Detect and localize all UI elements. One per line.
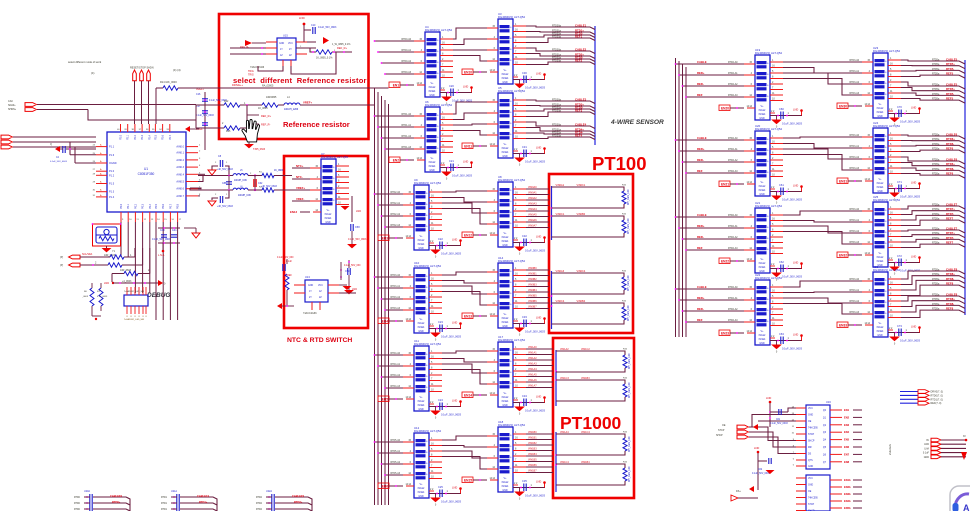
svg-text:REF1: REF1 [575,35,583,39]
svg-text:RTD5a: RTD5a [932,238,940,240]
capacitor C63 and ground [770,332,803,354]
svg-text:RTD6-: RTD6- [946,167,954,171]
svg-text:AIN0.3: AIN0.3 [176,166,184,169]
svg-text:VIN1C3: VIN1C3 [560,377,569,380]
capacitor C60 and ground [770,107,803,129]
svg-text:IN3&4: IN3&4 [502,151,509,154]
svg-text:RED-: RED- [697,307,704,311]
analog switch U23 [862,46,901,118]
svg-text:RTD2-A3: RTD2-A3 [728,170,738,173]
svg-text:C22: C22 [438,237,443,241]
svg-text:VCC: VCC [808,478,813,480]
svg-text:RTD8-: RTD8- [946,277,954,281]
svg-text:RTD3-A3: RTD3-A3 [390,307,400,310]
svg-text:RTD0-A1: RTD0-A1 [401,49,411,52]
svg-text:RTD5a: RTD5a [932,94,940,96]
svg-text:RTD5+: RTD5+ [946,62,955,66]
svg-text:EN6: EN6 [382,485,388,489]
svg-text:C72: C72 [897,254,902,258]
enable net EN3 [378,235,409,241]
svg-text:RTD5a: RTD5a [932,219,940,221]
svg-text:ALT-Q54: ALT-Q54 [514,338,525,342]
svg-text:CABLE2X: CABLE2X [292,494,304,498]
svg-text:C30: C30 [522,71,527,75]
svg-text:VIN1B6: VIN1B6 [528,464,537,467]
svg-text:RED+: RED+ [697,296,705,300]
svg-text:DG409DVQ: DG409DVQ [873,124,889,128]
svg-text:RTD8+: RTD8+ [946,272,955,276]
svg-text:CA0: CA0 [8,100,13,103]
svg-text:GND: GND [418,495,424,498]
svg-text:EN20: EN20 [721,107,729,111]
capacitor C72 and ground [888,254,921,276]
col3 input wires [675,285,744,323]
enable net EN1 [389,82,420,88]
svg-text:(P): (P) [60,256,63,259]
svg-text:LND: LND [793,261,798,265]
svg-text:RTD5a: RTD5a [932,60,940,62]
capacitors C40 C41 [152,227,200,257]
svg-text:C23: C23 [438,320,443,324]
VIN output wires 0A [526,186,549,228]
svg-text:U1: U1 [144,167,148,171]
svg-text:VIN1A7: VIN1A7 [528,385,537,388]
svg-text:4-WIRE SENSOR: 4-WIRE SENSOR [610,119,664,126]
svg-text:EN11: EN11 [464,145,472,149]
svg-text:ALT-Q54: ALT-Q54 [889,198,900,202]
svg-text:IN3&4: IN3&4 [759,113,766,116]
svg-text:RED-: RED- [697,158,704,162]
svg-text:ALT-Q54: ALT-Q54 [889,124,900,128]
svg-text:VCC: VCC [808,408,813,410]
svg-text:RTD6+: RTD6+ [946,162,955,166]
svg-text:VIN1A2: VIN1A2 [560,348,569,351]
svg-text:VIN1B4: VIN1B4 [581,461,590,464]
inductor L6 and resistor row2 [190,187,292,198]
svg-text:RTD5a: RTD5a [932,174,940,176]
svg-text:VIN0C1: VIN0C1 [556,213,565,216]
svg-text:C63: C63 [779,332,784,336]
svg-text:LND: LND [793,184,798,188]
svg-text:IN1&2: IN1&2 [325,213,332,216]
svg-text:LND: LND [452,399,457,403]
svg-text:AIN0.7: AIN0.7 [176,195,184,198]
input wires from bundle [374,439,403,476]
svg-text:_0603: _0603 [81,296,89,298]
svg-text:RA_00005: RA_00005 [262,85,274,88]
svg-text:RTD2-A3: RTD2-A3 [728,94,738,97]
svg-text:P2.0: P2.0 [120,134,123,140]
RC cluster 2 [161,490,217,511]
svg-text:RTD3-A0: RTD3-A0 [849,134,859,137]
svg-text:IN3&4: IN3&4 [502,485,509,488]
fanout group CABLE2 [526,48,595,65]
svg-text:RTD2-A2: RTD2-A2 [728,159,738,162]
capacitor C62 and ground [770,260,803,282]
enable net EN23 [719,330,750,336]
svg-text:VIN0A7: VIN0A7 [528,225,537,228]
capacitor C9 bottom [208,190,233,208]
svg-text:GND: GND [418,408,424,411]
svg-text:LND: LND [452,486,457,490]
svg-text:LND: LND [911,106,916,110]
svg-text:ALT-Q54: ALT-Q54 [514,89,525,93]
svg-text:VIN0A6: VIN0A6 [528,219,537,222]
svg-text:P2.1: P2.1 [127,134,130,140]
svg-text:IN3&4: IN3&4 [418,404,425,407]
capacitor C31 and ground [513,145,546,167]
svg-text:AIN0.1: AIN0.1 [176,152,184,155]
svg-text:VIN1C4: VIN1C4 [581,431,590,434]
svg-text:+4F_50V_0603: +4F_50V_0603 [217,169,233,171]
svg-text:RTD3-A3: RTD3-A3 [849,311,859,314]
svg-text:RTD4-A2: RTD4-A2 [390,374,400,377]
svg-text:1K_0805: 1K_0805 [258,107,268,110]
svg-text:LND: LND [536,235,541,239]
svg-text:DG409DVQ: DG409DVQ [414,429,430,433]
svg-text:CABLE: CABLE [697,285,707,289]
capacitor C33 and ground [513,315,546,337]
svg-text:0.1uF_50V_060: 0.1uF_50V_060 [277,257,294,259]
svg-text:R15: R15 [226,130,231,133]
svg-text:DG409DVQ: DG409DVQ [414,342,430,346]
svg-text:VIN1B5: VIN1B5 [528,459,537,462]
svg-text:GND: GND [808,415,813,417]
svg-text:RTD5-A3: RTD5-A3 [390,472,400,475]
staircase wires col3 to col4 [783,278,862,314]
svg-text:EN7: EN7 [844,452,850,456]
svg-text:RTD5a: RTD5a [932,74,940,76]
svg-text:RTD5a: RTD5a [932,144,940,146]
4-wire sensor fanout bus [594,26,596,145]
capacitor C4 [50,143,96,163]
svg-text:IN1&2: IN1&2 [418,487,425,490]
svg-text:0.1uF_50V_0603: 0.1uF_50V_0603 [770,423,788,425]
svg-text:NTC+: NTC+ [296,164,304,168]
svg-text:C33: C33 [522,315,527,319]
sensor loop R20 [556,348,631,372]
svg-text:RED+: RED+ [697,224,705,228]
svg-text:AIN0.0: AIN0.0 [176,146,184,149]
capacitor C20 and ground [440,84,473,106]
svg-text:RTD0-A3: RTD0-A3 [401,71,411,74]
svg-text:REF8: REF8 [946,282,954,286]
svg-text:R14 10K_0603: R14 10K_0603 [160,81,177,84]
capacitor C30 and ground [513,71,546,93]
capacitor C8 top [208,155,233,176]
svg-text:CABLE: CABLE [697,213,707,217]
svg-text:C70: C70 [897,105,902,109]
svg-text:P1.5: P1.5 [109,183,115,186]
microcontroller U1 C8051F350 [93,124,201,222]
svg-text:RTD3-A1: RTD3-A1 [849,219,859,222]
svg-text:RTD6+: RTD6+ [946,137,955,141]
svg-text:GND: GND [502,81,508,84]
svg-text:RED-: RED- [697,235,704,239]
resistor R11 [80,248,143,267]
svg-text:IN3&4: IN3&4 [502,77,509,80]
svg-text:LND: LND [536,316,541,320]
svg-text:REF: REF [697,318,703,322]
svg-text:EN5: EN5 [382,398,388,402]
staircase wires between columns [442,272,487,305]
svg-text:RTD5a: RTD5a [932,169,940,171]
svg-text:LND: LND [911,255,916,259]
svg-text:0.1uF_50V_0603: 0.1uF_50V_0603 [348,238,367,241]
svg-text:RED+: RED+ [697,147,705,151]
svg-text:RTD5a: RTD5a [932,214,940,216]
svg-text:VIN1C2: VIN1C2 [581,348,590,351]
col3 input wires [675,60,744,98]
svg-text:IN3&4: IN3&4 [502,321,509,324]
fanout group right 1 [901,82,965,103]
svg-text:LND: LND [793,333,798,337]
svg-text:(4) (4): (4) (4) [173,68,181,72]
svg-text:VIN0B7: VIN0B7 [528,306,537,309]
capacitor C25 and ground [429,485,462,507]
svg-text:RTD3-A3: RTD3-A3 [849,241,859,244]
svg-text:U21A: U21A [171,490,177,493]
svg-text:OE: OE [722,424,726,427]
svg-text:DG409DVQ: DG409DVQ [425,28,441,32]
svg-text:RTD1: RTD1 [161,503,168,505]
svg-text:RTD2-A3: RTD2-A3 [728,319,738,322]
svg-text:1_W_0805_0.1%: 1_W_0805_0.1% [332,43,351,46]
analog switch U21 [744,201,783,273]
svg-text:WT_RES_100: WT_RES_100 [627,189,630,205]
analog switch U22 [744,273,783,345]
svg-text:P0.4: P0.4 [149,203,152,209]
VIN output wires 1B [526,431,553,473]
svg-text:RTD5a: RTD5a [932,69,940,71]
svg-text:VIN0A0: VIN0A0 [528,186,537,189]
svg-text:0.1uF_50V_0603: 0.1uF_50V_0603 [900,120,920,124]
svg-text:Q: Q [50,143,52,146]
svg-text:RTD3-A2: RTD3-A2 [849,156,859,159]
svg-text:RTD03a: RTD03a [552,36,562,39]
svg-text:VIN1B1: VIN1B1 [528,437,537,440]
svg-text:VREF-: VREF- [296,197,304,201]
svg-text:RTD5-A1: RTD5-A1 [390,450,400,453]
IC U15 reference switch [266,34,307,67]
svg-text:RTD2: RTD2 [256,503,263,505]
svg-text:EN4: EN4 [844,430,850,434]
input wires from bundle [374,274,403,311]
svg-text:PT1000: PT1000 [560,413,622,433]
VIN output wires 1A [526,346,553,388]
svg-text:74ACC2G66: 74ACC2G66 [303,312,317,315]
resistor R10 [80,248,135,259]
DEBUG header J2 [124,287,148,321]
svg-text:ALT-Q54: ALT-Q54 [514,178,525,182]
LND and cap for U17 [731,446,775,501]
svg-text:VIN1A5: VIN1A5 [528,374,537,377]
svg-text:RTD0: RTD0 [74,503,81,505]
svg-text:DG409DVQ: DG409DVQ [498,423,514,427]
svg-text:EN2b: EN2b [844,485,851,489]
svg-text:select different Reference r: select different Reference resistor [233,76,367,85]
RC cluster 1 [74,490,130,511]
NTC input labels [290,164,310,214]
svg-text:C73: C73 [897,324,902,328]
svg-text:C41: C41 [172,229,177,232]
svg-text:C24: C24 [438,398,443,402]
svg-text:P2.7: P2.7 [169,134,172,140]
svg-text:RTD5a: RTD5a [932,149,940,151]
enable net EN4 [378,318,409,324]
svg-text:VIN1A0: VIN1A0 [528,346,537,349]
svg-text:P2.6: P2.6 [162,134,165,140]
svg-text:RTD5+: RTD5+ [946,87,955,91]
svg-text:GND: GND [877,115,883,118]
svg-text:STCP: STCP [808,434,815,436]
svg-text:VIN1B3: VIN1B3 [528,448,537,451]
svg-text:IN3&4: IN3&4 [759,266,766,269]
svg-text:VIN1A3: VIN1A3 [528,363,537,366]
svg-text:0.1uF_50V_0603: 0.1uF_50V_0603 [900,339,920,343]
svg-text:P2.5: P2.5 [154,134,157,140]
svg-text:RTD5-: RTD5- [946,67,954,71]
svg-text:IN1&2: IN1&2 [502,236,509,239]
svg-text:RTD3-A3: RTD3-A3 [849,167,859,170]
svg-text:RTD2-A1: RTD2-A1 [728,148,738,151]
net LND top [296,16,305,42]
enable net EN13 [462,313,493,319]
svg-text:0.1uF_50V_0603: 0.1uF_50V_0603 [441,335,461,339]
svg-text:REF6: REF6 [946,172,954,176]
svg-text:GND: GND [924,456,930,459]
fanout group right 0 [901,58,965,79]
analog switch U3 [487,12,526,84]
svg-text:RTD3-A2: RTD3-A2 [390,296,400,299]
svg-text:RTD03a: RTD03a [552,110,562,113]
svg-text:RTD5a: RTD5a [932,164,940,166]
col3 input wires [675,136,744,174]
svg-text:RTD2-A1: RTD2-A1 [728,72,738,75]
svg-text:RTD3-A0: RTD3-A0 [390,274,400,277]
net LND debug row [104,280,166,286]
svg-text:EN2: EN2 [393,159,399,163]
svg-text:2Y: 2Y [289,49,292,51]
svg-text:L.N.A: L.N.A [158,254,165,257]
svg-text:VIN1A6: VIN1A6 [528,379,537,382]
svg-text:VIN0C4: VIN0C4 [577,270,586,273]
svg-text:RTD5-A0: RTD5-A0 [390,439,400,442]
svg-text:DG409DVQ: DG409DVQ [498,259,514,263]
svg-text:EN33: EN33 [839,324,847,328]
svg-text:74ACC2G66: 74ACC2G66 [250,66,265,69]
svg-text:VIN0B2: VIN0B2 [528,278,537,281]
svg-text:LND: LND [356,210,361,213]
enable net EN6 [378,483,409,489]
svg-text:CABLE: CABLE [697,60,707,64]
svg-text:DRIVE++: DRIVE++ [232,83,243,87]
enable net EN33 [837,322,868,328]
svg-text:0.1uF_50V_0603: 0.1uF_50V_0603 [525,494,545,498]
svg-text:VIN1A4: VIN1A4 [560,431,569,434]
svg-text:GND: GND [502,489,508,492]
svg-text:CABLE0X: CABLE0X [110,494,122,498]
enable net EN21 [719,181,750,187]
svg-text:LND: LND [754,446,759,450]
svg-text:IN3&4: IN3&4 [418,326,425,329]
svg-text:REF8: REF8 [946,307,954,311]
svg-text:IN1&2: IN1&2 [429,161,436,164]
wires MCU to NTC switch [190,174,205,196]
svg-text:LND: LND [452,321,457,325]
annotation box: PT100 [549,174,633,333]
connector P1 header [1,135,96,163]
svg-text:RTD3-A1: RTD3-A1 [849,289,859,292]
svg-text:C31: C31 [522,145,527,149]
svg-text:REF_R+: REF_R+ [261,114,272,118]
svg-text:RTD2-A0: RTD2-A0 [728,214,738,217]
svg-text:EN15: EN15 [464,479,472,483]
svg-text:0.1uF_50V_060: 0.1uF_50V_060 [344,265,361,267]
svg-text:RTD8+: RTD8+ [946,297,955,301]
svg-text:REF(7..0): REF(7..0) [931,402,942,405]
capacitor C35 and ground [513,479,546,501]
analog switch U4 [414,25,453,97]
svg-text:DG409DVQ: DG409DVQ [873,198,889,202]
svg-text:VIN1A1: VIN1A1 [528,352,537,355]
svg-text:REF4: REF4 [575,134,583,138]
svg-text:AIN0.6: AIN0.6 [176,188,184,191]
svg-text:RTD5a: RTD5a [932,205,940,207]
analog switch U8 [487,175,526,247]
svg-text:IN3&4: IN3&4 [877,330,884,333]
shift register U16 74HC595 [792,400,862,469]
svg-text:100UH_C06: 100UH_C06 [234,180,247,182]
svg-text:GND: GND [502,325,508,328]
svg-text:ALT-Q54: ALT-Q54 [889,268,900,272]
svg-text:NTC & RTD SWITCH: NTC & RTD SWITCH [287,337,352,344]
svg-text:P2.2: P2.2 [134,134,137,140]
right connector fan [923,436,967,460]
analog switch U19 [744,48,783,120]
svg-text:EN12: EN12 [464,234,472,238]
svg-text:C25: C25 [438,485,443,489]
svg-text:RTD5a: RTD5a [932,295,940,297]
fanout group right 7 [901,293,965,318]
enable net EN2 [389,157,420,163]
svg-text:ALT-Q54: ALT-Q54 [771,204,782,208]
svg-text:RTD3-A1: RTD3-A1 [849,145,859,148]
svg-text:IN1&2: IN1&2 [759,185,766,188]
svg-text:EN3: EN3 [382,237,388,241]
svg-text:EN30: EN30 [839,105,847,109]
svg-text:EN10: EN10 [464,71,472,75]
svg-text:RTD2-A0: RTD2-A0 [728,61,738,64]
svg-text:VIN0B5: VIN0B5 [528,295,537,298]
svg-text:P0.3: P0.3 [142,203,145,209]
svg-text:RTD5a: RTD5a [932,64,940,66]
col3 input wires [675,213,744,251]
svg-text:C58: C58 [355,226,360,229]
svg-text:CABLE1: CABLE1 [575,24,587,28]
svg-text:ALT-Q54: ALT-Q54 [441,103,452,107]
svg-text:U15: U15 [283,34,288,38]
svg-text:WT_RES_100: WT_RES_100 [628,466,631,482]
svg-text:RTD2-A1: RTD2-A1 [728,225,738,228]
svg-text:RTD0-A0: RTD0-A0 [401,38,411,41]
enable net EN14 [462,392,493,398]
svg-text:RTD5a: RTD5a [932,85,940,87]
svg-text:RTD5a: RTD5a [932,243,940,245]
svg-text:2x2x2x2x: 2x2x2x2x [888,443,892,455]
svg-text:LND: LND [766,396,771,400]
svg-text:P1.1: P1.1 [109,146,115,149]
